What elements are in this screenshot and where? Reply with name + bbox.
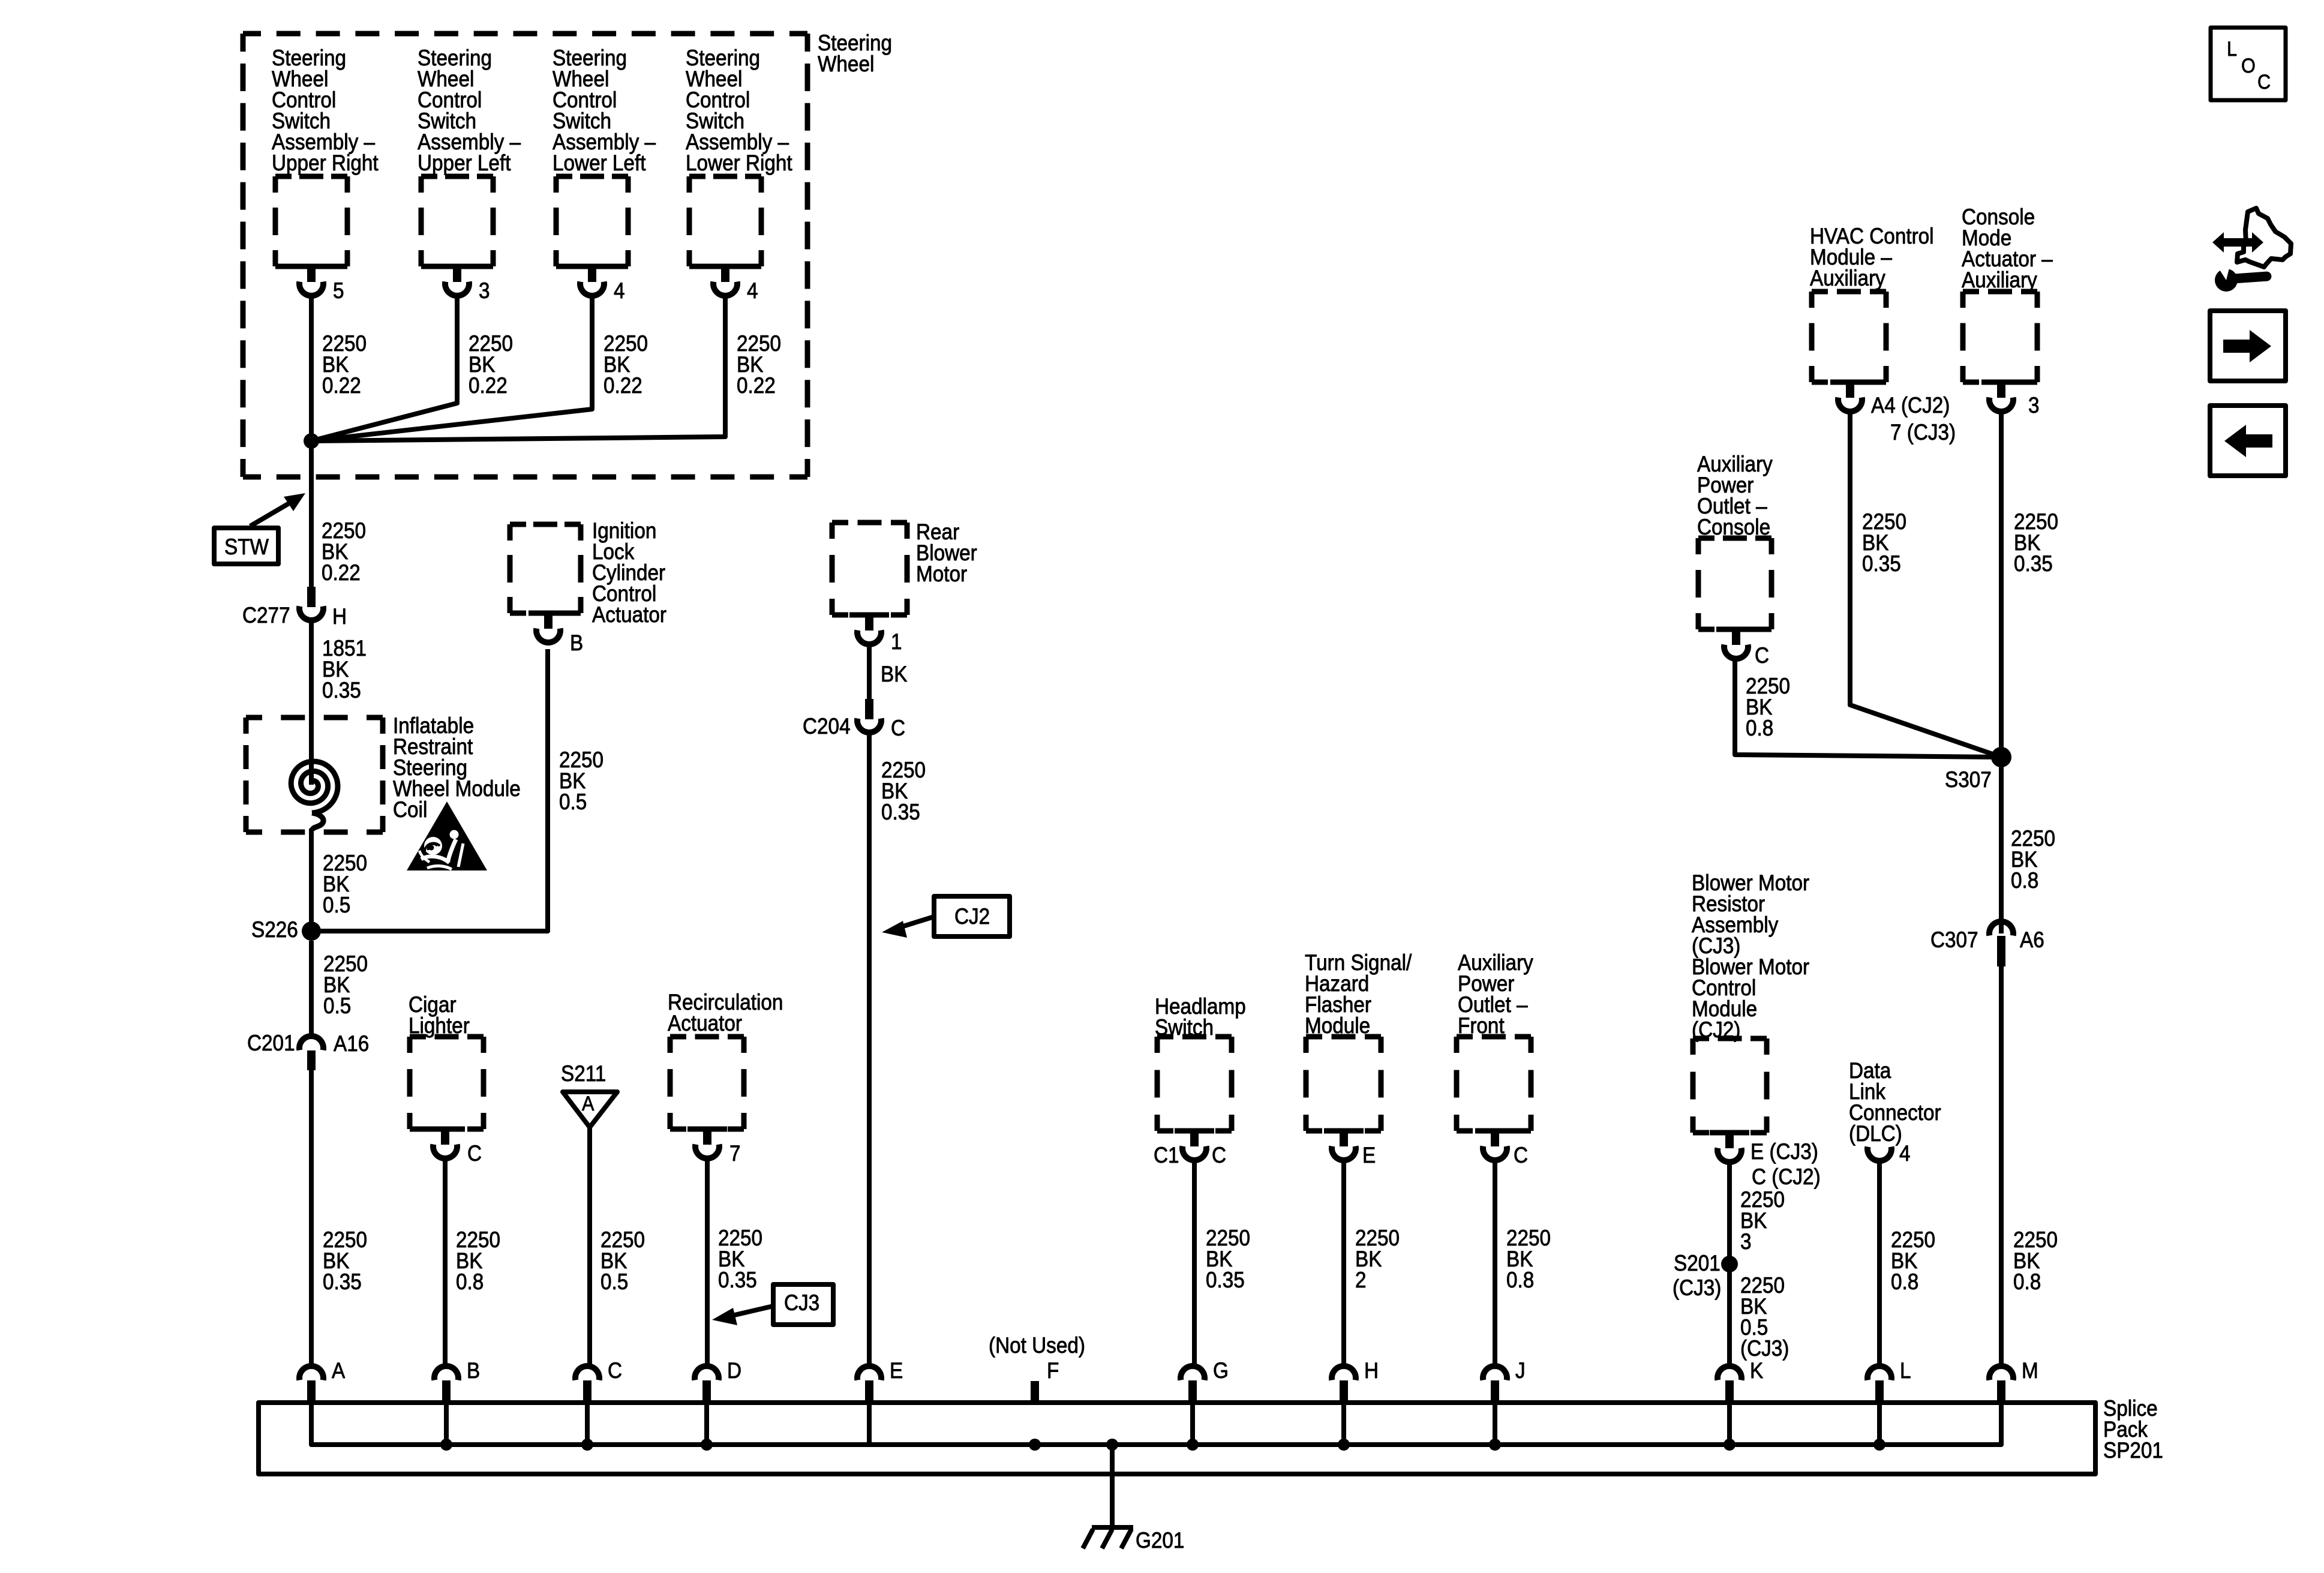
wire headlamp switch to splice pin G — [1192, 1160, 1197, 1366]
svg-text:S211: S211 — [561, 1061, 606, 1086]
wire label 1851 BK 0.35 — [322, 636, 367, 703]
svg-text:D: D — [727, 1358, 741, 1383]
wire label 2250 BK 0.22 (SW4) — [737, 331, 781, 398]
svg-text:S307: S307 — [1945, 767, 1992, 792]
in-line connector C201 pin A16 — [247, 1031, 369, 1070]
wire C277 to SRS coil — [309, 620, 314, 785]
svg-text:H: H — [332, 604, 347, 629]
svg-text:M: M — [2022, 1358, 2038, 1383]
splice pack pin B — [434, 1358, 480, 1405]
svg-text:C: C — [1212, 1143, 1226, 1167]
wire label 2250 BK 0.8 (DLC) — [1891, 1227, 1935, 1294]
wire junction to C277 — [309, 441, 314, 588]
wire flasher module to splice pin H — [1341, 1160, 1346, 1366]
splice pack pin L — [1867, 1358, 1911, 1405]
svg-text:J: J — [1515, 1358, 1526, 1383]
splice pack pin D — [695, 1358, 741, 1405]
pin C (connector C1) of headlamp switch — [1154, 1143, 1226, 1167]
wire C201 to splice pack pin A — [309, 1070, 314, 1366]
wire label 2250 BK 3 — [1740, 1187, 1785, 1254]
svg-text:C: C — [891, 716, 905, 740]
svg-text:7: 7 — [729, 1141, 741, 1166]
svg-text:C204: C204 — [803, 714, 851, 739]
svg-text:S201: S201 — [1674, 1251, 1721, 1275]
wire label 2250 BK 2 (flasher) — [1355, 1226, 1400, 1292]
component: Data Link Connector (DLC) — [1849, 1058, 1941, 1161]
wire blower resistor to S201 — [1727, 1162, 1732, 1264]
wire label 2250 BK 0.35 (console) — [2014, 509, 2058, 576]
switch SW1: Steering Wheel Control Switch Assembly - Upper Right — [272, 46, 379, 296]
wire label 2250 BK 0.5 (ignition) — [559, 748, 603, 814]
switch SW2: Steering Wheel Control Switch Assembly - Upper Left — [418, 46, 521, 296]
wire label 2250 BK 0.5 (S211) — [600, 1227, 645, 1294]
wire label 2250 BK 0.22 (SW2) — [469, 331, 513, 398]
wire S307 to C307 — [1999, 757, 2004, 933]
svg-text:G201: G201 — [1136, 1528, 1184, 1553]
wire label 2250 BK 0.22 (SW3) — [603, 331, 648, 398]
splice pack pin M — [1989, 1358, 2038, 1405]
wire coil to S226 — [309, 828, 314, 931]
wire HVAC module to S307 — [1850, 412, 2001, 757]
svg-text:CJ3: CJ3 — [784, 1290, 819, 1315]
splice pack pin A — [299, 1358, 346, 1405]
component: Blower Motor Resistor Assembly (CJ3) / Blower Motor Control Module (CJ2) — [1692, 870, 1809, 1162]
wire label 2250 BK 0.35 (HVAC) — [1862, 509, 1906, 576]
wire S226 to ignition lock actuator pin B — [311, 649, 548, 931]
svg-text:C: C — [1514, 1143, 1528, 1167]
switch SW3: Steering Wheel Control Switch Assembly - Lower Left — [553, 46, 656, 296]
in-line connector C307 pin A6 — [1930, 921, 2044, 966]
wire label 2250 BK 0.35 (to pin A) — [323, 1227, 367, 1294]
svg-text:E: E — [1362, 1143, 1376, 1167]
pin 3 of SW2 — [479, 278, 490, 303]
label: Steering Wheel — [818, 31, 892, 76]
ground G201 (chassis ground) — [1083, 1527, 1184, 1553]
splice pack pin J — [1483, 1358, 1526, 1405]
pin 4 of DLC — [1899, 1141, 1911, 1166]
svg-text:A: A — [332, 1358, 346, 1383]
wire C307 to splice pin M — [1999, 966, 2004, 1366]
splice pack pin E — [857, 1358, 903, 1405]
pin A4 (CJ2) / 7 (CJ3) of HVAC module — [1871, 393, 1956, 445]
pin C of cigar lighter — [467, 1141, 482, 1166]
pin C of aux power outlet console — [1755, 643, 1769, 668]
svg-text:4: 4 — [1899, 1141, 1911, 1166]
wire from SW3 pin 4 to junction — [311, 298, 592, 441]
splice pack SP201 housing — [259, 1403, 2095, 1474]
svg-text:C: C — [1755, 643, 1769, 668]
svg-text:3: 3 — [479, 278, 490, 303]
wire label 2250 BK 0.35 (recirc) — [718, 1226, 762, 1292]
svg-text:IgnitionLockCylinderControlAct: IgnitionLockCylinderControlActuator — [592, 518, 666, 627]
pin 4 of SW3 — [614, 278, 625, 303]
pin E (CJ3) / C (CJ2) of blower resistor — [1750, 1139, 1821, 1189]
svg-text:STW: STW — [224, 535, 269, 559]
wire splice bus to ground G201 — [1110, 1445, 1115, 1529]
svg-text:C: C — [2257, 71, 2271, 94]
splice bus junction dots — [440, 1439, 1885, 1451]
svg-text:K: K — [1750, 1358, 1764, 1383]
coil spiral symbol — [291, 761, 338, 830]
junction of switch ground wires — [304, 433, 319, 449]
wire label 2250 BK 0.35 (C204) — [881, 758, 926, 824]
callout CJ3 — [712, 1284, 833, 1325]
svg-text:F: F — [1047, 1358, 1059, 1383]
splice pack pin F (not used) — [1031, 1358, 1059, 1405]
splice pack pin H — [1332, 1358, 1379, 1405]
splice S201 (CJ3) — [1673, 1251, 1738, 1300]
wire label 2250 BK 0.22 (main) — [322, 518, 366, 585]
pin 4 of SW4 — [747, 278, 758, 303]
svg-text:O: O — [2241, 55, 2256, 77]
splice pack internal pin-to-bus wires — [446, 1405, 1879, 1445]
wire C204 to splice pin E — [867, 733, 872, 1366]
component: Rear Blower Motor — [832, 520, 977, 644]
wire from SW1 pin 5 to junction — [309, 298, 314, 441]
wire label 2250 BK 0.5 (CJ3) — [1740, 1273, 1789, 1361]
splice pack pin C — [575, 1358, 622, 1405]
svg-text:C: C — [608, 1358, 622, 1383]
svg-text:7 (CJ3): 7 (CJ3) — [1890, 420, 1956, 445]
svg-text:1: 1 — [891, 629, 902, 654]
in-line connector C204 pin C — [803, 699, 905, 740]
svg-text:4: 4 — [614, 278, 625, 303]
splice pack internal bus — [311, 1403, 2001, 1445]
SRS coil enclosure (dashed) — [246, 718, 383, 832]
wire recirculation actuator to splice pin D — [705, 1158, 710, 1366]
wire aux power console to S307 — [1735, 659, 2001, 757]
wire label 2250 BK 0.8 (cigar) — [456, 1227, 500, 1294]
wire cigar lighter to splice pin B — [443, 1158, 448, 1366]
svg-text:L: L — [1900, 1358, 1911, 1383]
svg-text:C277: C277 — [242, 603, 290, 628]
svg-text:S226: S226 — [251, 917, 298, 942]
splice S226 — [251, 917, 321, 942]
label: Splice Pack SP201 — [2103, 1396, 2163, 1463]
svg-text:3: 3 — [2028, 393, 2040, 418]
pin B of ignition lock actuator — [570, 631, 583, 655]
wire from SW2 pin 3 to junction — [311, 298, 457, 441]
svg-text:E: E — [890, 1358, 903, 1383]
svg-text:AuxiliaryPowerOutlet –Console: AuxiliaryPowerOutlet –Console — [1697, 452, 1773, 539]
svg-text:G: G — [1213, 1358, 1229, 1383]
svg-text:C307: C307 — [1930, 927, 1978, 952]
wire label 2250 BK 0.8 (aux console) — [1746, 674, 1790, 740]
wire label BK (rear blower) — [881, 662, 908, 686]
svg-text:A4 (CJ2): A4 (CJ2) — [1871, 393, 1950, 418]
pin C of aux power outlet front — [1514, 1143, 1528, 1167]
wire label 2250 BK 0.8 (aux front) — [1506, 1226, 1551, 1292]
pin 3 of console mode actuator — [2028, 393, 2040, 418]
component: Auxiliary Power Outlet - Console — [1697, 452, 1773, 659]
svg-text:L: L — [2227, 38, 2237, 61]
splice S307 — [1945, 747, 2011, 792]
svg-text:(Not Used): (Not Used) — [989, 1333, 1085, 1358]
icon: forward arrow box — [2210, 311, 2286, 381]
wire console mode actuator to S307 — [1999, 412, 2004, 757]
svg-text:4: 4 — [747, 278, 758, 303]
label: Inflatable Restraint Steering Wheel Module Coil — [393, 713, 521, 822]
pin 7 of recirculation actuator — [729, 1141, 741, 1166]
wire aux power front to splice pin J — [1493, 1160, 1497, 1366]
splice pack pin K — [1718, 1358, 1764, 1405]
wire S211 to splice pin C — [587, 1127, 592, 1366]
svg-text:C1: C1 — [1154, 1143, 1179, 1167]
splice S211 (triangle ref A) — [561, 1061, 617, 1127]
svg-text:A6: A6 — [2020, 927, 2044, 952]
wire label 2250 BK 0.5 (coil to S226) — [323, 851, 367, 917]
switch SW4: Steering Wheel Control Switch Assembly - Lower Right — [686, 46, 792, 296]
svg-text:BK: BK — [881, 662, 908, 686]
svg-text:CJ2: CJ2 — [954, 904, 990, 929]
pin E of flasher module — [1362, 1143, 1376, 1167]
wire label 2250 BK 0.5 (S226 to C201) — [323, 951, 368, 1018]
in-line connector C277 pin H — [242, 587, 347, 629]
component: Headlamp Switch — [1155, 994, 1246, 1160]
icon: backward arrow box — [2210, 406, 2286, 476]
svg-text:A16: A16 — [334, 1031, 369, 1056]
label: (Not Used) — [989, 1333, 1085, 1358]
callout STW (steering wheel harness) — [214, 493, 305, 564]
svg-text:5: 5 — [333, 278, 344, 303]
component: Recirculation Actuator — [668, 990, 783, 1158]
svg-text:C (CJ2): C (CJ2) — [1752, 1164, 1821, 1189]
wire label 2250 BK 0.8 (C307) — [2013, 1227, 2058, 1294]
icon: LOC reference box — [2211, 28, 2286, 100]
wire S226 to C201 — [309, 941, 314, 1036]
airbag warning triangle (SIR symbol) — [407, 801, 487, 870]
pin 1 of rear blower motor — [891, 629, 902, 654]
wire DLC to splice pin L — [1877, 1161, 1882, 1366]
component: HVAC Control Module - Auxiliary — [1810, 224, 1934, 412]
svg-text:C: C — [467, 1141, 482, 1166]
wire rear blower motor to C204 — [867, 645, 872, 702]
component: Auxiliary Power Outlet - Front — [1457, 950, 1533, 1160]
wire S201 to splice pin K — [1727, 1264, 1732, 1366]
component: Cigar Lighter — [409, 992, 484, 1158]
svg-text:B: B — [570, 631, 583, 655]
component: Turn Signal/Hazard Flasher Module — [1305, 950, 1412, 1160]
wire label 2250 BK 0.8 (S307 to C307) — [2011, 826, 2055, 893]
component: Ignition Lock Cylinder Control Actuator — [510, 518, 666, 643]
icon: service/repair (wrench) — [2212, 208, 2291, 292]
svg-text:B: B — [467, 1358, 480, 1383]
svg-text:C201: C201 — [247, 1031, 295, 1055]
splice pack pin G — [1181, 1358, 1229, 1405]
wire label 2250 BK 0.22 (SW1) — [322, 331, 367, 398]
svg-text:(CJ3): (CJ3) — [1673, 1275, 1721, 1300]
callout CJ2 — [882, 896, 1010, 938]
svg-text:A: A — [582, 1092, 594, 1115]
wire label 2250 BK 0.35 (headlamp) — [1206, 1226, 1250, 1292]
svg-text:H: H — [1364, 1358, 1379, 1383]
wire from SW4 pin 4 to junction — [311, 298, 725, 441]
pin 5 of SW1 — [333, 278, 344, 303]
component: Console Mode Actuator - Auxiliary — [1962, 205, 2053, 412]
steering wheel enclosure (dashed outline) — [243, 34, 807, 477]
svg-text:E (CJ3): E (CJ3) — [1750, 1139, 1818, 1164]
